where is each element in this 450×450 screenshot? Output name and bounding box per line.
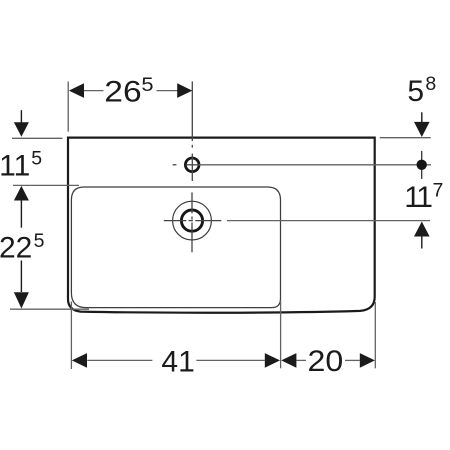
drain hole outer (173, 201, 212, 240)
dimension 41 arrow left (72, 353, 87, 368)
dimension 26.5 extension line left (67, 81, 69, 131)
dimension 26.5 arrow right (177, 83, 192, 98)
dimension 22.5 bottom extension line (10, 308, 89, 310)
dimension 26.5 line (84, 90, 178, 92)
washbasin inner basin rim (71, 187, 280, 308)
svg-text:41: 41 (161, 346, 194, 379)
drain hole inner (181, 210, 202, 231)
dimension 22.5 bottom arrow (20, 261, 22, 293)
dimension 22.5 top arrow (14, 186, 29, 201)
tap hole vertical centerline (191, 81, 193, 181)
dimension 20 line segments (296, 359, 359, 361)
dimension 41/20 extension line left (70, 302, 72, 370)
dimension 11.5 extension lines (12, 137, 63, 139)
dimension 41 line (87, 359, 264, 361)
drain vertical centerline (191, 192, 193, 252)
tap hole (185, 158, 199, 172)
tap hole horizontal centerline (173, 164, 177, 166)
dimension 20 arrow right (360, 353, 375, 368)
dimension 41/20 extension line middle (280, 301, 282, 369)
dimension 41/20 extension line right (374, 302, 376, 368)
dimension 11.5 top arrow (20, 110, 22, 123)
dimension 20 arrow left (281, 353, 296, 368)
dimension 5.8 arrow (421, 112, 423, 122)
washbasin outer outline (68, 138, 375, 313)
svg-text:20: 20 (308, 344, 344, 378)
drain horizontal centerline (164, 220, 222, 222)
dimension 41 arrow right (265, 353, 280, 368)
dimension 11.7 bottom arrow (414, 222, 430, 237)
dimension 26.5 arrow left (69, 83, 84, 98)
dimension 5.8 extension line (380, 137, 431, 139)
dot terminator on tap centerline (421, 151, 423, 179)
